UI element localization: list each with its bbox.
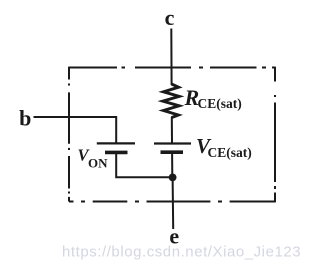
svg-text:https://blog.csdn.net/Xiao_Jie: https://blog.csdn.net/Xiao_Jie123 — [62, 244, 301, 261]
wire from b terminal — [34, 117, 117, 143]
dash-dot box bottom border — [69, 201, 275, 203]
node junction dot — [169, 174, 177, 182]
svg-text:CE(sat): CE(sat) — [198, 96, 242, 111]
battery V_CE(sat) bottom plate (short thick) — [161, 150, 184, 154]
svg-text:CE(sat): CE(sat) — [208, 145, 252, 160]
svg-text:b: b — [19, 105, 31, 130]
wire battery V_CE(sat) to node — [171, 153, 173, 178]
wire from c terminal down to resistor — [170, 29, 172, 86]
battery V_ON top plate (long) — [97, 142, 135, 144]
dash-dot box right border — [274, 67, 276, 203]
wire node down to e terminal — [172, 177, 175, 230]
dash-dot box left border — [68, 67, 70, 202]
resistor R_CE(sat) — [163, 84, 179, 118]
svg-text:ON: ON — [88, 155, 108, 170]
svg-text:c: c — [165, 5, 175, 30]
wire V_ON to node — [116, 153, 172, 177]
battery V_ON bottom plate (short thick) — [105, 151, 128, 155]
wire resistor to battery V_CE(sat) — [171, 117, 173, 143]
battery V_CE(sat) top plate (long) — [154, 142, 191, 144]
dash-dot box top border — [69, 67, 275, 69]
